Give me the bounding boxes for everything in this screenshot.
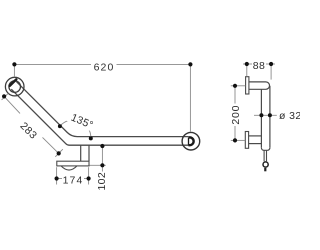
svg-text:102: 102 — [96, 172, 108, 191]
right tube end rim line — [188, 138, 190, 145]
dimension 174 line — [57, 178, 89, 180]
dimension 200 extension ticks — [231, 86, 246, 141]
side view: vertical tube — [261, 86, 270, 151]
dimension 200 end dots — [233, 84, 237, 88]
corner wall plate — [57, 161, 89, 166]
dimension 620 line — [14, 63, 190, 65]
svg-text:200: 200 — [230, 105, 242, 125]
right flange outer ring — [182, 132, 200, 150]
dimension 283 extension ticks — [2, 93, 63, 157]
svg-text:88: 88 — [253, 60, 265, 72]
side view: bottom stem — [264, 150, 266, 161]
left tube end cap (dark chord) — [10, 79, 16, 85]
side view: bottom pin — [264, 168, 266, 171]
dimension 283 end dots — [2, 94, 6, 98]
dimension 88 end dots — [245, 62, 249, 66]
dimension dia 32 dots — [259, 113, 263, 117]
svg-text:ø 32: ø 32 — [279, 110, 300, 122]
dimension 200 line — [234, 86, 236, 141]
dimension 174 end dots — [55, 176, 59, 180]
right tube end cap (dark semicircle) — [189, 137, 194, 145]
dimension 135 deg arc — [60, 120, 91, 138]
svg-text:174: 174 — [63, 175, 84, 187]
dimension dia 32 line — [254, 114, 277, 116]
dimension 88 line — [243, 63, 275, 65]
dimension 88 extension lines — [247, 64, 271, 80]
side view: top mount arm with cap — [249, 82, 270, 89]
side view: bottom mount arm — [249, 136, 262, 144]
dimension 102 end dots — [100, 144, 104, 148]
dimension 620 end dots — [12, 62, 16, 66]
side view: top wall plate — [246, 77, 249, 94]
left flange outer ring — [5, 77, 24, 96]
plate dome cover arc — [61, 166, 77, 170]
dimension 174 extension lines — [57, 167, 89, 184]
side view: bottom wall plate — [245, 132, 248, 149]
dimension 102 extension line — [90, 164, 106, 166]
dimension 620 extension lines — [14, 64, 190, 131]
left flange inner ring — [9, 81, 21, 93]
svg-text:620: 620 — [94, 61, 115, 73]
corner support post — [81, 145, 89, 161]
dimension 135 deg arc dots — [58, 124, 62, 128]
dimension 135 deg label backing — [66, 110, 98, 133]
dimension 283 line — [4, 96, 59, 153]
dimension 102 line — [101, 146, 103, 172]
side view: knob circle — [263, 162, 268, 167]
grab bar tube (front view) — [11, 82, 188, 146]
